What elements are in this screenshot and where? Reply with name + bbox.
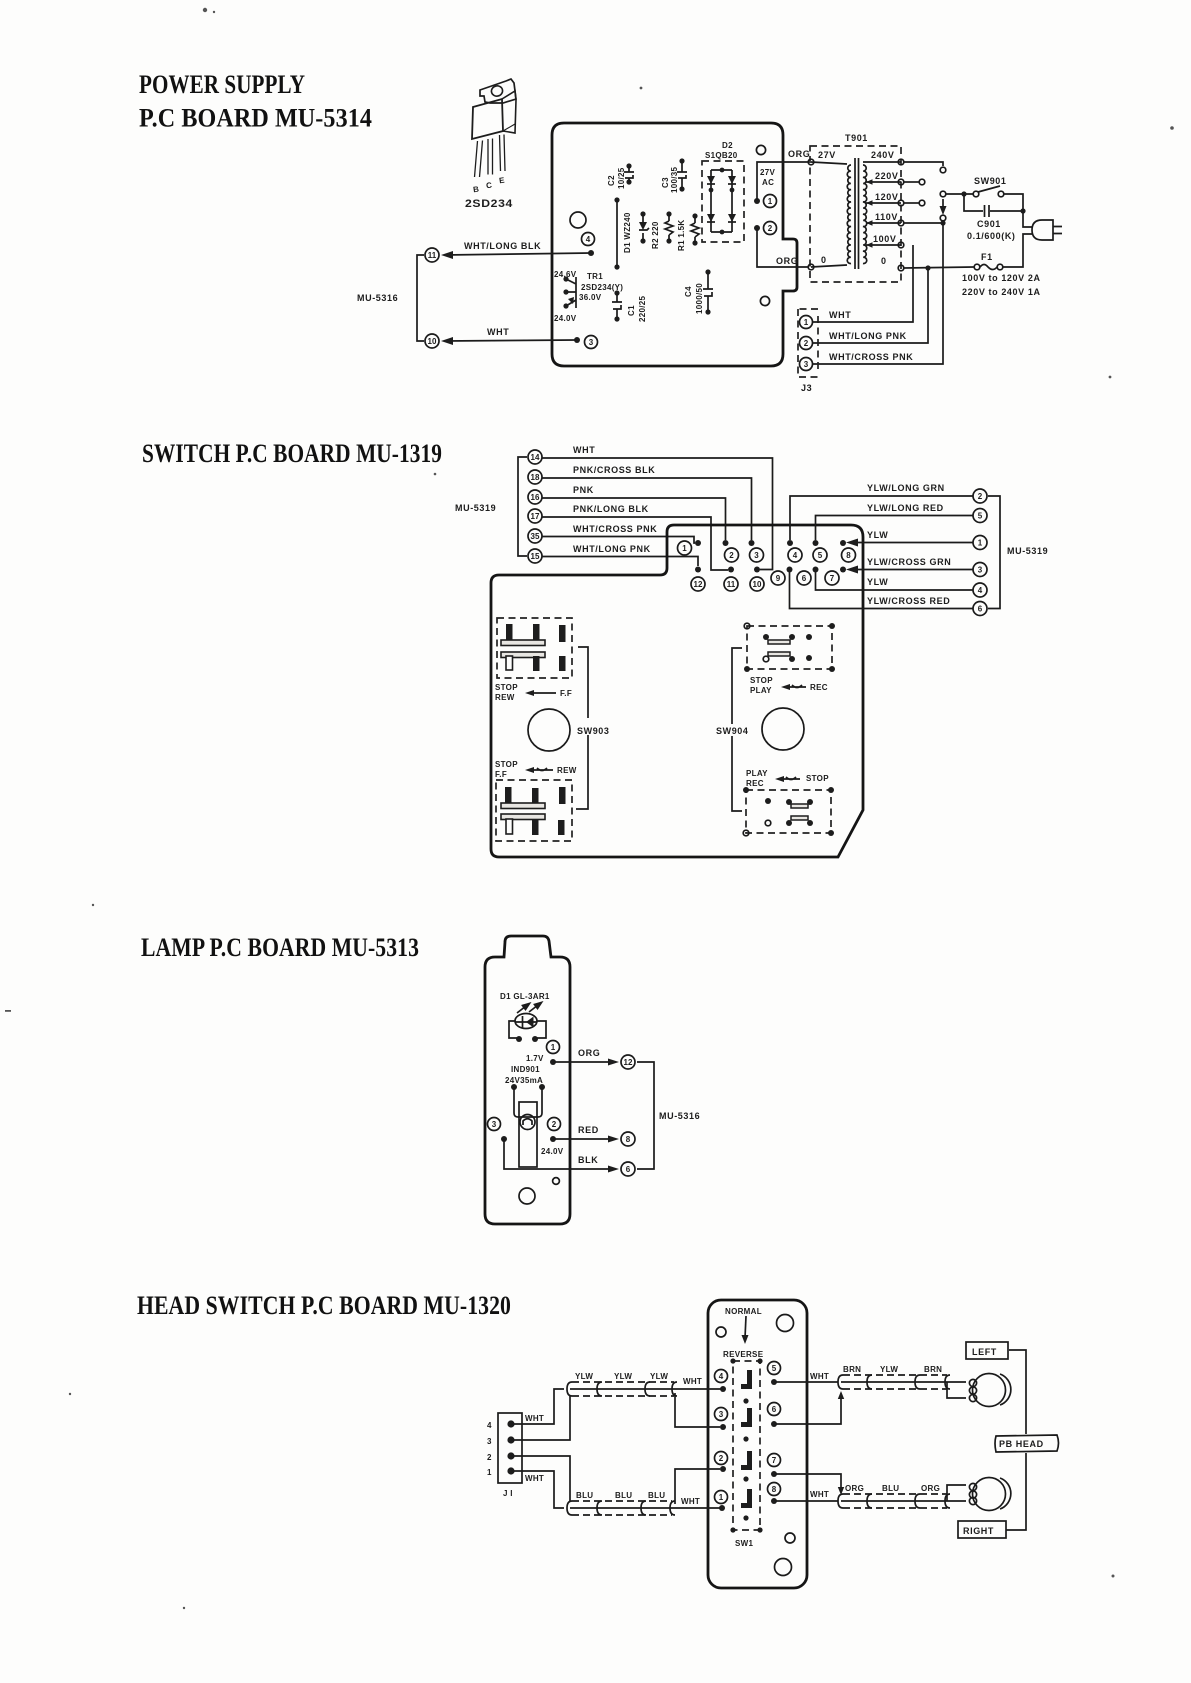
bracket MU-5316: [417, 255, 424, 341]
T901 terminal 27V: [808, 159, 814, 165]
board pin 9: [771, 567, 793, 586]
svg-text:R2 220: R2 220: [651, 221, 660, 249]
svg-text:D1 GL-3AR1: D1 GL-3AR1: [500, 992, 550, 1001]
svg-text:0: 0: [881, 256, 887, 266]
svg-text:R1 1.5K: R1 1.5K: [677, 220, 686, 251]
wire J1-1 WHT to bottom cable: [511, 1471, 564, 1508]
board pin 12: [691, 567, 705, 592]
wire YLW/CROSS GRN pin3R to pin7: [850, 569, 973, 571]
wire top cable inner to pin 3: [675, 1393, 720, 1427]
switch SW904 lower contact box: [743, 787, 834, 836]
board pin 7: [825, 567, 846, 586]
svg-text:WHT: WHT: [683, 1377, 702, 1386]
hole top right: [756, 145, 765, 154]
svg-text:YLW/LONG RED: YLW/LONG RED: [867, 503, 944, 513]
svg-text:2: 2: [719, 1454, 724, 1463]
bracket SW904: [732, 648, 742, 811]
SW1 dot 4: [743, 1515, 748, 1520]
svg-text:C3: C3: [661, 177, 670, 188]
svg-text:MU-5316: MU-5316: [659, 1111, 700, 1121]
resistor R1 1.5K: [677, 213, 699, 251]
arrow normal/reverse: [745, 1316, 746, 1338]
switch SW903 upper contact box: [497, 618, 572, 678]
T901 tap 120V: [866, 202, 901, 204]
connector pin 16: [528, 490, 542, 504]
bracket SW903: [576, 647, 588, 809]
svg-text:3: 3: [487, 1437, 492, 1446]
label PLAY REC STOP: [746, 769, 829, 788]
svg-text:SWITCH P.C BOARD MU-1319: SWITCH P.C BOARD MU-1319: [142, 439, 442, 468]
svg-text:WHT: WHT: [810, 1490, 829, 1499]
T901 tap 240V: [863, 161, 901, 163]
wire pin5 WHT to left head cable: [774, 1381, 838, 1383]
svg-text:NORMAL: NORMAL: [725, 1307, 762, 1316]
svg-text:WHT: WHT: [525, 1474, 544, 1483]
rectifier D2 S1QB20 dashed box: [702, 161, 744, 242]
svg-text:YLW: YLW: [650, 1372, 668, 1381]
pin 8 circle: [621, 1132, 635, 1146]
capacitor C3: [661, 158, 687, 193]
svg-text:24.0V: 24.0V: [554, 314, 577, 323]
switch SW903 lower contact box: [496, 780, 572, 841]
right pin 6: [973, 602, 987, 616]
svg-text:220V: 220V: [875, 171, 898, 181]
right pin 5: [973, 509, 987, 523]
pin 1: [754, 195, 777, 208]
svg-text:4: 4: [719, 1372, 724, 1381]
board pin 7: [768, 1454, 781, 1478]
svg-text:5: 5: [818, 551, 823, 560]
board pin 5: [768, 1362, 781, 1386]
wire YLW/LONG RED pin5R to pin5: [816, 516, 974, 541]
wire PB HEAD to RIGHT: [1006, 1453, 1026, 1530]
svg-text:TR1: TR1: [587, 272, 603, 281]
board pin 6: [797, 567, 819, 586]
svg-text:0.1/600(K): 0.1/600(K): [967, 231, 1016, 241]
T901 core: [855, 158, 859, 269]
svg-text:P.C BOARD MU-5314: P.C BOARD MU-5314: [139, 104, 372, 133]
svg-text:7: 7: [772, 1456, 777, 1465]
connector J1: [487, 1413, 522, 1498]
power board MU-5314 outline: [552, 123, 797, 366]
label SW904: [714, 724, 754, 736]
svg-text:1: 1: [719, 1493, 724, 1502]
svg-text:1: 1: [768, 197, 773, 206]
switch SW904 hole: [762, 708, 804, 750]
right head cable ORG BLU ORG: [838, 1484, 950, 1508]
resistor R2 220: [651, 211, 673, 249]
wire J1-4 WHT to top cable: [511, 1389, 564, 1424]
svg-text:YLW/CROSS RED: YLW/CROSS RED: [867, 596, 950, 606]
svg-text:1: 1: [682, 544, 687, 553]
wire WHT to pin 10: [441, 327, 577, 345]
svg-text:RIGHT: RIGHT: [963, 1526, 994, 1536]
board pin 8: [840, 540, 856, 562]
svg-text:REVERSE: REVERSE: [723, 1350, 764, 1359]
svg-text:SW903: SW903: [577, 726, 610, 736]
svg-text:STOP: STOP: [806, 774, 829, 783]
svg-text:F1: F1: [981, 252, 993, 262]
svg-text:WHT: WHT: [810, 1372, 829, 1381]
svg-text:3: 3: [492, 1120, 497, 1129]
svg-text:D1 WZ240: D1 WZ240: [623, 212, 632, 253]
pin 6 circle: [621, 1162, 635, 1176]
right pin 1: [973, 536, 987, 550]
svg-text:LEFT: LEFT: [972, 1347, 997, 1357]
pin 12 circle: [621, 1055, 635, 1069]
T901 tap 220V: [866, 181, 901, 183]
svg-text:18: 18: [531, 473, 540, 482]
capacitor C4 1000/50: [684, 269, 713, 314]
svg-text:11: 11: [428, 251, 437, 260]
svg-text:12: 12: [624, 1058, 633, 1067]
transistor package 2SD234: [472, 79, 516, 177]
pin 3: [574, 336, 598, 349]
wire PNK/CROSS BLK pin18 to pin3: [542, 478, 752, 540]
wire pin1 to transformer 27V: [757, 162, 809, 201]
top cable shield YLW YLW YLW: [567, 1372, 723, 1396]
J3 pin 1: [800, 316, 813, 329]
svg-text:WHT/CROSS PNK: WHT/CROSS PNK: [573, 524, 657, 534]
svg-text:AC: AC: [762, 178, 774, 187]
lamp pin 2: [548, 1118, 561, 1131]
lamp pin 1: [547, 1041, 560, 1054]
svg-text:27V: 27V: [818, 150, 836, 160]
connector pin 15: [528, 549, 542, 563]
svg-text:36.0V: 36.0V: [579, 293, 602, 302]
svg-text:35: 35: [531, 532, 540, 541]
svg-text:5: 5: [772, 1364, 777, 1373]
lamp IND901 body: [519, 1102, 537, 1167]
svg-text:5: 5: [978, 512, 983, 521]
svg-text:YLW: YLW: [867, 530, 888, 540]
lamp board MU-5313 outline: [485, 936, 570, 1224]
board hole top-right: [777, 1315, 794, 1332]
svg-text:WHT/LONG PNK: WHT/LONG PNK: [829, 331, 907, 341]
svg-text:15: 15: [531, 552, 540, 561]
svg-text:E: E: [498, 176, 505, 186]
svg-text:240V: 240V: [871, 150, 894, 160]
svg-text:2: 2: [978, 492, 983, 501]
svg-text:ORG: ORG: [921, 1484, 940, 1493]
svg-text:1.7V: 1.7V: [526, 1054, 544, 1063]
svg-text:PLAY: PLAY: [746, 769, 768, 778]
label PB HEAD box: [995, 1435, 1059, 1452]
svg-text:WHT: WHT: [525, 1414, 544, 1423]
wire SW901 to plug: [1004, 194, 1032, 227]
T901 secondary coil: [863, 165, 867, 263]
wire YLW/LONG GRN pin2R to pin4: [790, 496, 973, 540]
connector J3 dashed box: [798, 309, 818, 377]
svg-text:PNK/LONG BLK: PNK/LONG BLK: [573, 504, 649, 514]
svg-text:ORG: ORG: [788, 149, 810, 159]
left head cable BRN YLW BRN: [838, 1365, 950, 1389]
board pin 1: [715, 1491, 728, 1512]
AC plug P901: [1032, 220, 1062, 240]
bracket MU-5319 left: [518, 457, 527, 556]
board pin 2: [715, 1452, 728, 1473]
svg-text:C1: C1: [627, 305, 636, 316]
bracket MU-5316 lamp: [637, 1062, 654, 1169]
svg-text:ORG: ORG: [845, 1484, 864, 1493]
wire pin7 to right head cable: [774, 1474, 841, 1491]
svg-text:C2: C2: [607, 175, 616, 186]
left head coil: [969, 1374, 1010, 1407]
svg-text:8: 8: [846, 551, 851, 560]
svg-text:REW: REW: [495, 693, 515, 702]
svg-text:7: 7: [830, 574, 835, 583]
svg-text:6: 6: [772, 1405, 777, 1414]
label STOP FF REW: [495, 760, 577, 779]
selector pivot and arrow: [940, 191, 946, 197]
svg-text:YLW/CROSS GRN: YLW/CROSS GRN: [867, 557, 951, 567]
capacitor C901: [964, 194, 1026, 241]
svg-text:10: 10: [753, 580, 762, 589]
label LEFT box: [966, 1342, 1008, 1359]
J3 pin 2: [800, 337, 813, 350]
head switch board MU-1320 outline: [708, 1300, 807, 1588]
board pin 3: [749, 540, 764, 562]
svg-text:2SD234: 2SD234: [465, 198, 513, 210]
svg-text:LAMP P.C BOARD MU-5313: LAMP P.C BOARD MU-5313: [141, 933, 419, 962]
wire WHT/LONG PNK pin15 to pin12: [542, 557, 698, 567]
board pin 5: [813, 540, 828, 562]
svg-text:YLW/LONG GRN: YLW/LONG GRN: [867, 483, 945, 493]
svg-text:YLW: YLW: [575, 1372, 593, 1381]
bottom cable shield BLU BLU BLU: [567, 1491, 722, 1515]
svg-text:8: 8: [772, 1485, 777, 1494]
svg-text:1: 1: [551, 1043, 556, 1052]
svg-text:BRN: BRN: [924, 1365, 942, 1374]
svg-text:24V35mA: 24V35mA: [505, 1076, 543, 1085]
svg-text:C4: C4: [684, 286, 693, 297]
svg-text:2: 2: [552, 1120, 557, 1129]
board hole bottom big: [775, 1559, 792, 1576]
svg-text:REC: REC: [746, 779, 764, 788]
T901 terminal 0 left: [808, 264, 814, 270]
wire 240V to selector: [904, 162, 943, 166]
mounting hole: [570, 212, 586, 228]
svg-text:11: 11: [727, 580, 736, 589]
switch board MU-1319 outline: [491, 525, 863, 857]
wire bottom cable inner to pin 2: [675, 1469, 720, 1504]
svg-text:WHT: WHT: [681, 1497, 700, 1506]
wire BLK to pin 6: [501, 1136, 619, 1173]
svg-text:WHT/CROSS PNK: WHT/CROSS PNK: [829, 352, 913, 362]
svg-text:1: 1: [978, 539, 983, 548]
connector pin 11: [425, 248, 439, 262]
svg-text:SW1: SW1: [735, 1539, 753, 1548]
wire pin6 to left head cable: [774, 1395, 841, 1424]
lamp IND901 frame: [511, 1084, 545, 1117]
right head coil: [969, 1478, 1010, 1511]
wire PNK/LONG BLK pin17 to pin11: [542, 517, 728, 570]
SW1 contact 3: [741, 1451, 752, 1470]
J3 pin 3: [800, 358, 813, 371]
SW1 contact 2: [741, 1408, 752, 1427]
svg-text:PB HEAD: PB HEAD: [999, 1439, 1044, 1449]
switch SW901: [973, 176, 1006, 197]
svg-text:STOP: STOP: [495, 683, 518, 692]
transistor TR1 2SD234(Y): [554, 270, 623, 323]
wire YLW pin4R to pin6: [816, 572, 974, 590]
svg-text:BLK: BLK: [578, 1155, 598, 1165]
wire PNK pin16 to pin2: [542, 498, 726, 540]
switch SW903 hole: [528, 709, 570, 751]
right pin 2: [973, 489, 987, 503]
board pin 3: [715, 1408, 728, 1431]
wire transformer 0 to fuse: [904, 267, 974, 268]
svg-text:16: 16: [531, 493, 540, 502]
label RIGHT box: [958, 1521, 1006, 1538]
connector pin 10: [425, 334, 439, 348]
svg-text:MU-5316: MU-5316: [357, 293, 398, 303]
svg-text:1000/50: 1000/50: [695, 283, 704, 314]
zener D1 WZ240: [623, 211, 649, 253]
wire 120V contact: [904, 202, 919, 204]
label STOP REW FF: [495, 683, 572, 702]
wire YLW/CROSS RED pin6R to pin9: [790, 572, 974, 609]
switch SW1 dashed box: [733, 1361, 760, 1530]
right pin 3: [973, 563, 987, 577]
svg-text:110V: 110V: [875, 212, 898, 222]
connector pin 35: [528, 529, 542, 543]
svg-text:S1QB20: S1QB20: [705, 151, 738, 160]
transformer T901 dashed box: [810, 146, 901, 282]
wire J3-2 WHT/LONG PNK to 0: [813, 268, 928, 343]
svg-text:27V: 27V: [760, 168, 775, 177]
svg-text:YLW: YLW: [867, 577, 888, 587]
board pin 1: [678, 540, 702, 555]
svg-text:REW: REW: [557, 766, 577, 775]
svg-text:220V to 240V 1A: 220V to 240V 1A: [962, 287, 1041, 297]
svg-text:WHT: WHT: [573, 445, 595, 455]
svg-text:2: 2: [487, 1453, 492, 1462]
wire J1-3 to top cable: [511, 1396, 570, 1440]
svg-text:0: 0: [821, 255, 827, 265]
board pin 8: [768, 1483, 781, 1505]
svg-text:YLW: YLW: [614, 1372, 632, 1381]
svg-text:1: 1: [804, 318, 809, 327]
wire J1-2 to bottom cable: [511, 1456, 570, 1501]
svg-text:24.6V: 24.6V: [554, 270, 577, 279]
svg-text:ORG: ORG: [776, 256, 798, 266]
svg-text:14: 14: [531, 453, 540, 462]
board pin 6: [768, 1403, 781, 1428]
svg-text:12: 12: [694, 580, 703, 589]
svg-text:STOP: STOP: [495, 760, 518, 769]
svg-text:PNK: PNK: [573, 485, 594, 495]
svg-text:100/35: 100/35: [670, 166, 679, 193]
bracket MU-5319 right: [988, 496, 1000, 609]
lamp board hole big: [519, 1188, 535, 1204]
selector common wire down to J3-3: [813, 223, 943, 364]
svg-text:BRN: BRN: [843, 1365, 861, 1374]
wire LEFT to PB HEAD: [1009, 1350, 1026, 1434]
right pin 4: [973, 583, 987, 597]
svg-text:2: 2: [768, 224, 773, 233]
LED D1 light arrows: [517, 1003, 542, 1014]
svg-text:ORG: ORG: [578, 1048, 600, 1058]
svg-text:F.F: F.F: [560, 689, 572, 698]
svg-text:2: 2: [729, 551, 734, 560]
svg-text:BLU: BLU: [882, 1484, 899, 1493]
svg-text:MU-5319: MU-5319: [455, 503, 496, 513]
svg-text:F.F: F.F: [495, 770, 507, 779]
wire fuse to plug: [1003, 234, 1032, 267]
board pin 4: [715, 1370, 728, 1393]
board hole top-left: [716, 1327, 726, 1337]
board pin 4: [787, 540, 802, 562]
svg-text:10/25: 10/25: [617, 167, 626, 189]
svg-text:220/25: 220/25: [638, 295, 647, 322]
wire J3-1 WHT to 100V: [813, 245, 913, 322]
svg-text:2: 2: [804, 339, 809, 348]
svg-text:24.0V: 24.0V: [541, 1147, 564, 1156]
svg-text:17: 17: [531, 512, 540, 521]
svg-text:4: 4: [487, 1421, 492, 1430]
svg-text:D2: D2: [722, 141, 733, 150]
svg-text:WHT/LONG PNK: WHT/LONG PNK: [573, 544, 651, 554]
svg-text:BLU: BLU: [648, 1491, 665, 1500]
wire 220V contact: [904, 181, 919, 183]
svg-text:SW904: SW904: [716, 726, 749, 736]
svg-text:REC: REC: [810, 683, 828, 692]
svg-text:PNK/CROSS BLK: PNK/CROSS BLK: [573, 465, 655, 475]
svg-text:C901: C901: [977, 219, 1001, 229]
wire pin8 WHT to right head cable: [774, 1500, 838, 1502]
svg-text:WHT: WHT: [829, 310, 851, 320]
hole bottom right: [760, 296, 769, 305]
svg-text:WHT: WHT: [487, 327, 509, 337]
T901 terminal 0 right: [898, 265, 904, 271]
svg-text:100V: 100V: [873, 234, 896, 244]
board hole bottom small: [785, 1533, 795, 1543]
svg-text:YLW: YLW: [880, 1365, 898, 1374]
svg-text:C: C: [485, 181, 492, 191]
svg-text:SW901: SW901: [974, 176, 1007, 186]
pin 2: [754, 222, 777, 235]
wire 110V to selector junction: [904, 222, 943, 224]
T901 tap 110V: [866, 222, 901, 224]
wires cable to left head: [947, 1382, 966, 1398]
svg-text:10: 10: [428, 337, 437, 346]
switch SW904 upper contact box: [744, 623, 835, 672]
pin 4: [582, 233, 595, 257]
svg-text:POWER SUPPLY: POWER SUPPLY: [139, 70, 305, 99]
T901 tap 100V: [866, 244, 901, 246]
wire selector pivot to SW901: [946, 193, 973, 195]
lamp pin 3: [488, 1118, 501, 1131]
svg-text:PLAY: PLAY: [750, 686, 772, 695]
svg-text:3: 3: [978, 566, 983, 575]
svg-text:3: 3: [719, 1410, 724, 1419]
capacitor C2: [607, 163, 634, 189]
svg-text:STOP: STOP: [750, 676, 773, 685]
svg-text:3: 3: [754, 551, 759, 560]
wire ORG to pin 12: [550, 1048, 619, 1066]
wire RED to pin 8: [550, 1125, 619, 1143]
SW1 contact 4: [741, 1489, 752, 1508]
svg-text:MU-5319: MU-5319: [1007, 546, 1048, 556]
SW1 dot 1: [743, 1398, 748, 1403]
svg-text:8: 8: [626, 1135, 631, 1144]
fuse F1: [974, 252, 1003, 270]
capacitor C1 220/25: [612, 290, 647, 322]
svg-text:BLU: BLU: [615, 1491, 632, 1500]
svg-text:100V to 120V 2A: 100V to 120V 2A: [962, 273, 1041, 283]
svg-text:3: 3: [804, 360, 809, 369]
